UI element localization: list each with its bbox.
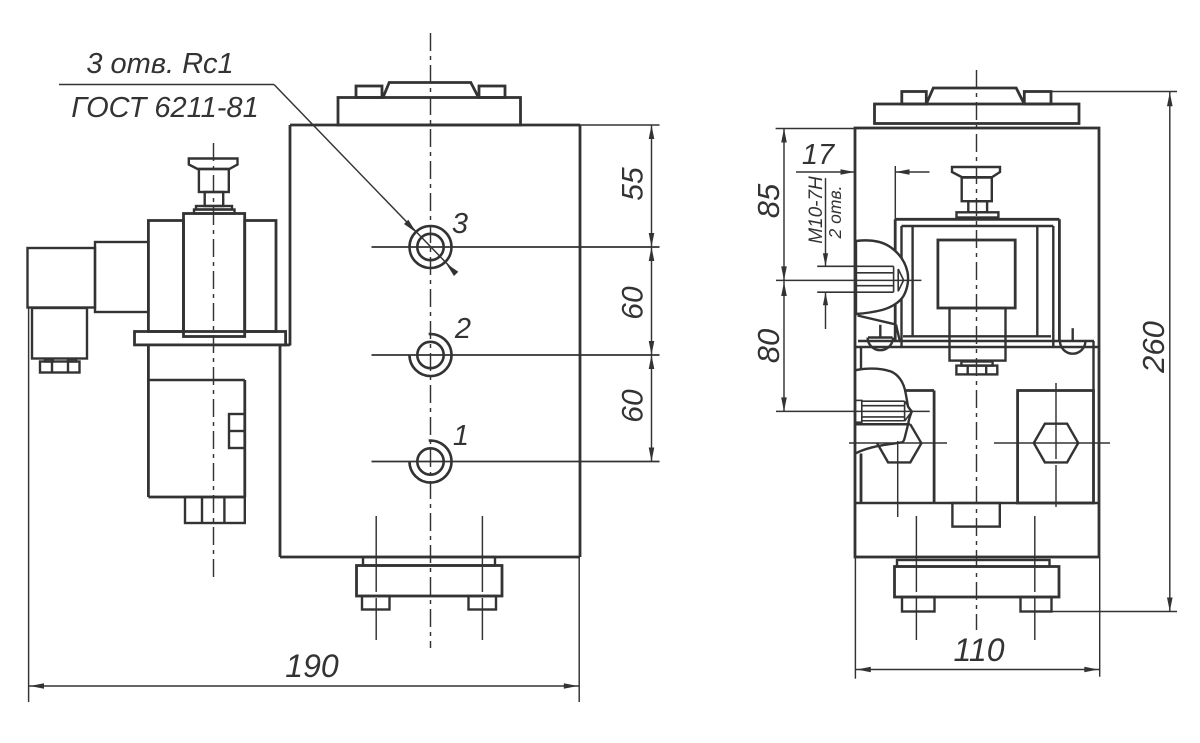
right view: recess vertical left xyxy=(860,347,862,369)
right view: bottom right foot xyxy=(1021,597,1052,612)
left view: port 1 (Rc1 threaded hole) xyxy=(372,441,660,483)
svg-text:60: 60 xyxy=(617,286,650,320)
left view: stud centerline left xyxy=(375,516,377,641)
left view: top mounting flange xyxy=(338,98,521,126)
left view: extension line top edge xyxy=(580,124,660,126)
right view: knob stem xyxy=(968,201,987,212)
left view: bottom flange xyxy=(357,566,503,597)
right view: upper flange screw left xyxy=(868,325,893,350)
left view: port 3 (Rc1 threaded hole) xyxy=(372,226,660,268)
svg-text:60: 60 xyxy=(617,389,650,423)
right view: hex centerline horizontal xyxy=(849,442,1110,444)
right view: dim label 85 xyxy=(751,183,786,218)
right view: right lower block xyxy=(1018,391,1094,504)
right view: dim label 17 xyxy=(802,139,836,171)
svg-text:3: 3 xyxy=(452,208,468,240)
right view: dim label 110 xyxy=(953,632,1004,668)
solenoid: knob plate upper xyxy=(196,206,232,210)
left view: bottom right foot xyxy=(469,596,497,610)
left view: bottom left foot xyxy=(362,596,390,610)
right view: armature core xyxy=(938,240,1015,308)
solenoid: coil middle section xyxy=(184,214,245,337)
right view: bottom flange xyxy=(895,567,1060,598)
right view: M10 leader xyxy=(823,178,828,329)
right view: top flange trapezoid boss xyxy=(926,88,1024,104)
right view: dim label 260 xyxy=(1136,321,1171,374)
solenoid: mounting flange xyxy=(135,332,286,345)
right view: stem nut xyxy=(956,366,997,375)
left view: port 3 label xyxy=(452,208,468,240)
right view: stem washer xyxy=(961,362,992,366)
right view: top flange left tab xyxy=(902,92,927,105)
left view: solenoid axis centerline xyxy=(213,143,215,578)
svg-text:260: 260 xyxy=(1136,321,1171,374)
left view: note text line 2 xyxy=(71,92,258,124)
svg-text:ГОСТ 6211-81: ГОСТ 6211-81 xyxy=(71,92,258,124)
right view: knob cap xyxy=(952,167,1000,178)
svg-text:2 отв.: 2 отв. xyxy=(825,186,845,240)
right view: lower M10 hole xyxy=(855,400,912,422)
right view: upper cable gland boss xyxy=(856,240,908,342)
left view: top flange left tab xyxy=(356,86,382,98)
svg-text:110: 110 xyxy=(953,632,1004,668)
left view: note text line 1 xyxy=(86,48,233,80)
left view: dim label 190 xyxy=(285,648,339,684)
solenoid: bottom feet block xyxy=(185,497,245,523)
right view: upper M10 hole centerline xyxy=(776,279,921,281)
left view: port 1 label xyxy=(453,420,469,452)
left view: top flange right tab xyxy=(479,86,505,98)
right view: M10 label line 2 xyxy=(825,186,845,240)
right view: lower M10 hole centerline xyxy=(776,410,930,412)
left view: leader line for note xyxy=(59,85,458,277)
right view: top flange right tab xyxy=(1024,92,1051,105)
right view: stud centerline left xyxy=(915,516,917,640)
right view: bottom left foot xyxy=(902,597,935,612)
right view: stud centerline right xyxy=(1034,516,1036,640)
right view: coil outline walls xyxy=(903,226,1051,336)
svg-text:1: 1 xyxy=(453,420,469,452)
svg-text:17: 17 xyxy=(802,139,836,171)
right view: knob plate xyxy=(957,212,999,217)
left view: extension lines for 190 xyxy=(29,308,580,702)
left view: main vertical centerline xyxy=(430,33,432,648)
right view: dimension 80 xyxy=(781,280,787,411)
right view: dimension line 110 xyxy=(855,667,1099,673)
right view: armature stem xyxy=(950,308,1006,361)
svg-text:3 отв. Rc1: 3 отв. Rc1 xyxy=(86,48,233,80)
left view: dimension line 190 xyxy=(29,683,580,689)
right view: body part line lower xyxy=(856,502,1098,504)
solenoid: manual override knob cap xyxy=(189,159,238,170)
right view: bracket base plate xyxy=(858,340,1094,342)
right view: upper M10 hole xyxy=(817,266,903,292)
solenoid: knob block xyxy=(199,169,229,192)
right view: main vertical centerline xyxy=(976,70,978,630)
svg-text:80: 80 xyxy=(751,329,786,363)
svg-text:М10-7Н: М10-7Н xyxy=(806,176,827,244)
solenoid: coil left section xyxy=(148,221,183,332)
right view: upper flange screw right xyxy=(1060,328,1085,354)
svg-text:55: 55 xyxy=(617,167,650,201)
solenoid: lower tube outline xyxy=(148,345,244,497)
left view: dim label 60 lower xyxy=(617,389,650,423)
right view: dimension line 260 xyxy=(1167,92,1173,612)
left view: port 2 label xyxy=(454,313,471,345)
left view: stud centerline right xyxy=(481,516,483,641)
left view: dim label 60 upper xyxy=(617,286,650,320)
right view: dimension 17 xyxy=(796,166,930,219)
right view: bottom thin plate xyxy=(897,560,1050,567)
right view: M10 label line 1 xyxy=(806,176,827,244)
right view: right hex bolt head xyxy=(1034,424,1078,463)
left view: dimension line 55/60/60 xyxy=(649,125,655,462)
connector: horizontal arm xyxy=(95,242,148,312)
right view: left lower block xyxy=(861,391,934,504)
left view: top flange trapezoid boss xyxy=(383,83,479,98)
solenoid: coil right section xyxy=(245,221,276,332)
right view: valve body outline xyxy=(855,128,1099,557)
svg-text:85: 85 xyxy=(751,183,786,218)
right view: dimension 85 xyxy=(781,129,787,281)
svg-text:2: 2 xyxy=(454,313,471,345)
right view: bottom center boss xyxy=(952,503,999,527)
right view: lower cable gland boss xyxy=(856,369,912,454)
right view: dim label 80 xyxy=(751,329,786,363)
right view: right hex centerline vertical xyxy=(1055,383,1057,509)
solenoid: knob stem xyxy=(205,192,224,206)
right view: extension line top left xyxy=(776,128,855,130)
right view: extension lines for 260 xyxy=(1051,92,1177,612)
right view: knob block xyxy=(962,177,992,201)
left view: valve body outline xyxy=(280,125,580,557)
connector: lower left box xyxy=(32,308,87,359)
connector: terminal block xyxy=(40,359,80,373)
right view: extension lines for 110 xyxy=(855,557,1099,679)
connector: upper left box xyxy=(28,248,96,308)
right view: top mounting flange xyxy=(875,104,1080,124)
right view: solenoid bracket inner wall xyxy=(902,226,1054,346)
solenoid: knob plate lower xyxy=(194,210,235,214)
left view: dim label 55 xyxy=(617,167,650,201)
left view: port 2 (Rc1 threaded hole) xyxy=(372,334,660,376)
right view: recess vertical right xyxy=(1092,341,1094,391)
right view: body part line upper xyxy=(855,346,1099,348)
right view: left hex bolt head xyxy=(856,424,922,462)
right view: solenoid bracket outer xyxy=(895,219,1059,341)
right view: left hex centerline vertical xyxy=(897,441,899,521)
left view: bottom thin plate xyxy=(363,557,495,566)
svg-text:190: 190 xyxy=(285,648,339,684)
solenoid: side clip detail xyxy=(229,414,245,448)
